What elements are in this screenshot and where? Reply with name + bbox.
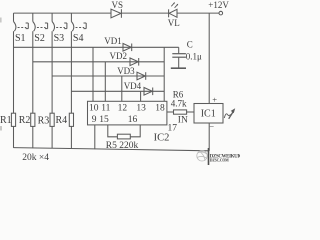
wire R5 to IC2 pin 16 bbox=[130, 125, 140, 137]
LED VL bbox=[169, 9, 177, 17]
svg-text:VS: VS bbox=[112, 0, 124, 10]
ground bar under capacitor C bbox=[171, 67, 186, 69]
switch S1 bbox=[14, 13, 29, 31]
svg-text:13: 13 bbox=[136, 103, 146, 113]
resistor R1 bbox=[11, 113, 15, 126]
wire IC2 pin 9 to ground rail bbox=[94, 125, 96, 149]
wire IC1 bottom lead bbox=[208, 123, 210, 151]
diode VD1 bbox=[123, 44, 132, 52]
diode VD2 bbox=[130, 58, 139, 66]
svg-text:−: − bbox=[209, 122, 214, 132]
wire R1 bottom lead bbox=[13, 126, 15, 147]
wire VL anode to +12V terminal bbox=[177, 12, 219, 14]
svg-text:IC2: IC2 bbox=[154, 133, 170, 144]
diode VS bbox=[111, 9, 121, 18]
wire S2 column bbox=[32, 31, 34, 113]
scan smudge left edge top bbox=[0, 18, 2, 23]
wire R2 bottom lead bbox=[32, 126, 34, 148]
resistor R6 bbox=[174, 110, 187, 114]
wire row 1 (S1 to VD1 and C) bbox=[14, 46, 179, 48]
resistor R5 bbox=[117, 134, 130, 139]
wire IC2 pin 17 to R6 bbox=[167, 111, 174, 113]
switch S3 bbox=[52, 13, 67, 31]
svg-text:S1: S1 bbox=[15, 33, 26, 44]
IC2 box bbox=[88, 101, 167, 125]
svg-text:20k ×4: 20k ×4 bbox=[22, 153, 49, 163]
wire stub row2 to IC2 pin 11 bbox=[104, 62, 106, 102]
watermark globe logo bbox=[197, 151, 207, 161]
svg-text:+12V: +12V bbox=[208, 0, 229, 10]
svg-text:C: C bbox=[187, 40, 193, 50]
RF emission squiggle arrow of IC1 bbox=[224, 108, 235, 119]
wire R3 bottom lead bbox=[51, 126, 53, 148]
svg-text:R3: R3 bbox=[38, 116, 50, 127]
svg-text:R1: R1 bbox=[0, 115, 12, 126]
svg-text:VD1: VD1 bbox=[104, 36, 122, 46]
LED VL emission arrows bbox=[171, 2, 178, 8]
switch S4 bbox=[71, 13, 86, 31]
svg-text:VD2: VD2 bbox=[110, 51, 128, 61]
wire diode OR bus to IC2 pin 18 bbox=[163, 47, 165, 101]
svg-text:S2: S2 bbox=[34, 33, 45, 44]
svg-text:S3: S3 bbox=[54, 33, 65, 44]
resistor R2 bbox=[31, 113, 35, 126]
wire stub row1 to IC2 pin 10 bbox=[92, 47, 94, 101]
wire row 3 (S3 to VD3) bbox=[52, 75, 164, 77]
svg-text:DZSC.COM: DZSC.COM bbox=[210, 158, 229, 162]
svg-text:16: 16 bbox=[128, 115, 138, 125]
svg-text:+: + bbox=[212, 94, 217, 104]
svg-text:VL: VL bbox=[168, 18, 180, 28]
svg-text:VD3: VD3 bbox=[117, 66, 135, 76]
IC1 box bbox=[194, 104, 223, 124]
svg-text:11: 11 bbox=[101, 103, 110, 113]
wire S1 column bbox=[13, 31, 15, 113]
wire R6 to IC1 IN bbox=[187, 111, 194, 113]
wire top bus left segment bbox=[14, 12, 112, 14]
svg-text:R2: R2 bbox=[19, 115, 31, 126]
wire stub row3 to IC2 pin 12 bbox=[121, 76, 123, 101]
wire top bus VS-to-VL segment bbox=[121, 12, 168, 14]
capacitor C bbox=[172, 47, 186, 67]
diode VD4 bbox=[144, 88, 153, 96]
wire stub row4 to IC2 pin 13 bbox=[140, 91, 142, 101]
svg-text:17: 17 bbox=[168, 124, 178, 134]
svg-text:IN: IN bbox=[178, 115, 188, 125]
wire IC2 pin 15 stub bbox=[108, 125, 118, 137]
svg-text:IC1: IC1 bbox=[201, 108, 216, 119]
svg-text:4.7k: 4.7k bbox=[171, 99, 187, 109]
wire R4 bottom lead bbox=[70, 126, 72, 148]
svg-text:10: 10 bbox=[89, 103, 99, 113]
wire S3 column bbox=[51, 31, 53, 113]
diode VD3 bbox=[137, 72, 146, 80]
svg-text:15: 15 bbox=[99, 115, 109, 125]
wire S4 column bbox=[70, 31, 72, 113]
wire row 2 (S2 to VD2) bbox=[33, 61, 164, 63]
svg-text:0.1μ: 0.1μ bbox=[186, 52, 202, 62]
resistor R4 bbox=[69, 113, 73, 126]
svg-text:S4: S4 bbox=[73, 33, 84, 44]
svg-text:12: 12 bbox=[118, 103, 128, 113]
svg-text:9: 9 bbox=[92, 115, 97, 125]
switch S2 bbox=[33, 13, 48, 31]
svg-text:18: 18 bbox=[155, 103, 165, 113]
scan smudge left edge middle bbox=[0, 126, 2, 131]
wire row 4 (S4 to VD4) bbox=[71, 90, 164, 92]
watermark dark bar bbox=[208, 148, 210, 165]
ground/common bottom wire bbox=[14, 148, 210, 151]
wire right bus +12V down to IC1 bbox=[208, 13, 210, 103]
+12V terminal bbox=[219, 11, 223, 15]
svg-text:VD4: VD4 bbox=[124, 81, 142, 91]
resistor R3 bbox=[50, 113, 54, 126]
svg-text:R4: R4 bbox=[56, 115, 68, 126]
